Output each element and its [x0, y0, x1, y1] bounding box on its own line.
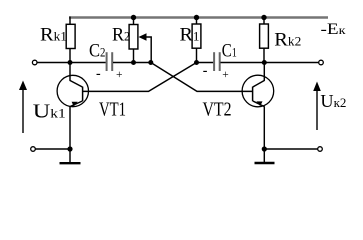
- label C2: [89, 40, 106, 61]
- resistor R2 (potentiometer): [129, 15, 138, 63]
- ground right: [255, 162, 275, 164]
- capacitor C1: [214, 52, 220, 71]
- R2 wiper arrow: [139, 33, 152, 62]
- svg-text:-: -: [96, 67, 101, 82]
- wire: C2 to R2 node: [113, 62, 151, 64]
- svg-text:VT1: VT1: [99, 100, 126, 121]
- transistor VT1: [57, 63, 88, 163]
- label R1: [180, 24, 200, 45]
- power rail -Ek: [69, 16, 328, 19]
- label C1: [222, 40, 237, 61]
- node: R1 bottom: [194, 60, 199, 65]
- node: VT2 collector: [262, 60, 267, 65]
- label Rk1: [40, 24, 67, 45]
- wire: bottom-left terminal to emitter: [35, 148, 70, 150]
- svg-text:+: +: [222, 69, 229, 81]
- resistor Rk1: [66, 17, 75, 63]
- node: R2 wiper junction: [148, 60, 153, 65]
- output terminal right: [319, 60, 324, 65]
- output terminal bottom-left: [31, 147, 36, 152]
- C2 polarity marks: [96, 67, 123, 82]
- wire: VT2 collector node to output terminal right: [264, 62, 318, 64]
- label -Ek: [321, 21, 347, 38]
- wire: coupling to VT1 base: [83, 63, 197, 92]
- svg-text:+: +: [116, 69, 123, 81]
- label VT2: [203, 100, 232, 121]
- node: VT1 emitter junction: [67, 146, 72, 151]
- input terminal left: [32, 60, 37, 65]
- label Uk1: [33, 101, 66, 122]
- svg-text:-: -: [203, 64, 208, 79]
- node: VT2 emitter junction: [262, 146, 267, 151]
- label R2: [112, 24, 130, 45]
- wire: emitter to bottom-right terminal: [264, 148, 317, 150]
- arrow Uk1: [19, 81, 27, 134]
- capacitor C2: [107, 52, 113, 71]
- label Uk2: [320, 91, 346, 111]
- wire: R1 node to C1: [197, 62, 214, 64]
- node: VT1 collector: [68, 60, 73, 65]
- node: R2 bottom: [131, 60, 136, 65]
- wire: coupling to VT2 base: [151, 63, 252, 92]
- wire: C1 to VT2 collector node: [221, 62, 265, 64]
- arrow Uk2: [313, 82, 321, 131]
- resistor Rk2: [260, 15, 269, 63]
- C1 polarity marks: [203, 64, 229, 82]
- wire: left terminal to C2: [37, 62, 106, 64]
- svg-text:VT2: VT2: [203, 100, 232, 121]
- label Rk2: [274, 29, 301, 50]
- output terminal bottom-right: [318, 147, 323, 152]
- resistor R1: [192, 15, 201, 63]
- transistor VT2: [242, 63, 274, 163]
- ground left: [60, 162, 81, 164]
- label VT1: [99, 100, 126, 121]
